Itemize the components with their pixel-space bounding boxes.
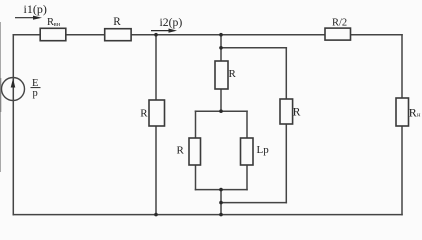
wire branch x=156 <box>155 35 157 215</box>
resistor R parallel body <box>189 138 201 165</box>
wire bottom rail <box>13 214 402 216</box>
wire branch x=221 lower <box>220 190 222 215</box>
wire y=46 sub rail <box>221 47 286 49</box>
resistor R right-mid body <box>280 99 293 124</box>
svg-text:R: R <box>113 16 121 28</box>
svg-text:i1(p): i1(p) <box>24 2 47 16</box>
svg-text:i2(p): i2(p) <box>160 16 183 29</box>
scan edge artifact <box>0 22 1 172</box>
label E/p fraction <box>31 78 41 99</box>
svg-text:н: н <box>417 111 421 118</box>
current arrow i1 <box>15 16 42 20</box>
wire parallel left bottom stub <box>195 165 197 190</box>
wire right-mid branch x=286.5 <box>285 48 287 203</box>
wire parallel top bar <box>196 110 248 112</box>
wire parallel right top stub <box>246 111 248 138</box>
resistor R/2 body <box>325 28 351 40</box>
current arrow i2 <box>151 29 177 33</box>
svg-text:вн: вн <box>54 21 61 28</box>
node dot sub-rail junction <box>219 46 223 50</box>
svg-text:R: R <box>229 68 237 80</box>
inductor Lp body <box>241 138 254 165</box>
resistor Rn body <box>396 98 409 126</box>
node dot top-left junction <box>154 33 158 37</box>
node dot return junction <box>219 201 223 205</box>
source E/p circle <box>2 78 25 101</box>
wire right vertical <box>401 35 403 215</box>
wire parallel bottom bar <box>196 189 248 191</box>
resistor R middle body <box>215 61 228 89</box>
wire parallel right bottom stub <box>246 165 248 190</box>
label Rvn <box>47 17 61 28</box>
svg-text:Lp: Lp <box>257 144 270 156</box>
wire y=202 return <box>221 202 286 204</box>
node dot parallel bottom junction <box>219 188 223 192</box>
svg-text:R: R <box>409 106 417 120</box>
node dot bottom-left junction <box>154 213 158 217</box>
resistor Rvn body <box>40 28 66 40</box>
label Rn <box>409 106 421 120</box>
node dot parallel top junction <box>219 109 223 113</box>
source arrow <box>11 79 16 88</box>
node dot bottom-mid junction <box>219 213 223 217</box>
wire branch x=221 upper <box>220 35 222 112</box>
svg-text:R: R <box>293 106 301 118</box>
wire parallel left top stub <box>195 111 197 138</box>
svg-text:p: p <box>33 88 38 99</box>
svg-text:R: R <box>140 108 148 120</box>
node dot top-mid junction <box>219 33 223 37</box>
svg-text:R/2: R/2 <box>332 18 347 29</box>
wire top rail <box>13 34 402 36</box>
resistor R top body <box>105 29 131 41</box>
svg-text:R: R <box>177 145 185 157</box>
wire left vertical <box>12 35 14 215</box>
resistor R branch body <box>149 100 165 126</box>
